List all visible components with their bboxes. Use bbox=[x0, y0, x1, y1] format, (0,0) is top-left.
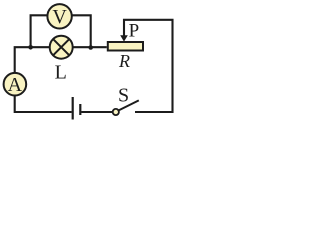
svg-text:R: R bbox=[118, 51, 130, 71]
switch S lever bbox=[118, 100, 138, 110]
svg-text:L: L bbox=[55, 62, 67, 84]
svg-text:P: P bbox=[129, 20, 140, 41]
junction node left bbox=[28, 45, 33, 50]
wire: battery right to switch pivot bbox=[81, 111, 113, 113]
wire: right side loop (switch to top) with rheostat wiper stem bbox=[124, 20, 173, 112]
wire: voltmeter parallel branch (left riser, top run, right riser) bbox=[31, 15, 91, 48]
wiper arrowhead of rheostat P bbox=[120, 35, 128, 41]
svg-text:V: V bbox=[52, 6, 67, 28]
svg-text:S: S bbox=[118, 85, 129, 107]
wire: lamp branch horizontal + left side down + bottom to battery bbox=[15, 47, 107, 112]
ammeter A circle bbox=[4, 73, 27, 96]
voltmeter V1 circle bbox=[47, 4, 71, 28]
battery short plate bbox=[79, 104, 81, 115]
lamp L circle with X bbox=[50, 36, 73, 59]
svg-text:A: A bbox=[8, 74, 23, 96]
junction node right bbox=[88, 45, 93, 50]
switch S pivot circle bbox=[113, 109, 119, 115]
battery long plate bbox=[72, 97, 74, 120]
rheostat R body bbox=[108, 42, 143, 51]
